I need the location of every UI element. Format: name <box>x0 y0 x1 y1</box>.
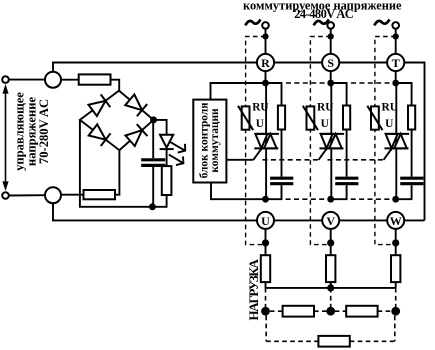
snubber resistor phase S <box>343 106 350 130</box>
dashed wire delta U to resistor <box>270 310 283 312</box>
wire phase T main vertical through triac <box>395 83 397 199</box>
bridge diode D4 (bottom-right) <box>125 124 148 147</box>
wire capacitor C1 to minus rail <box>152 167 154 207</box>
output circle U <box>257 212 274 229</box>
svg-text:S: S <box>327 56 334 70</box>
junction dot load V <box>327 239 334 246</box>
varistor RU phase T <box>367 106 382 130</box>
junction dot bridge plus <box>150 116 157 123</box>
dashed wire S-T at output bus <box>351 198 396 200</box>
dashed wire R-S at input bus <box>286 82 331 84</box>
wire load node to load resistor W <box>395 243 397 255</box>
control block U1 <box>193 100 226 183</box>
diode bridge frame <box>80 91 154 151</box>
wire S input node to snubber resistor <box>331 83 347 106</box>
wire load node to load resistor V <box>330 243 332 255</box>
svg-text:T: T <box>392 56 400 70</box>
svg-text:U: U <box>385 118 393 130</box>
label: commutation control block (rotated) <box>199 103 222 179</box>
junction dot R top <box>262 33 268 39</box>
wire circle R to input node <box>265 71 267 83</box>
wire terminal X2 to node circle B <box>9 194 45 196</box>
snubber capacitor phase R <box>270 178 293 184</box>
junction dot delta W <box>391 307 400 316</box>
LED arrow 2 <box>169 155 184 166</box>
delta resistor U-V <box>283 306 314 317</box>
junction dot R output node <box>262 196 269 203</box>
wire phase R main vertical through triac <box>265 83 267 199</box>
wire: bridge AC bottom to resistor R2 <box>115 150 119 195</box>
wire phase S main vertical through triac <box>330 83 332 199</box>
svg-text:W: W <box>390 214 402 228</box>
wire: top bus from node A up and right to phase circles, down right side <box>53 63 425 221</box>
wire load node to load resistor U <box>265 243 267 255</box>
wire star connection of load <box>266 287 396 289</box>
wire circle T to input node <box>395 71 397 83</box>
output circle V <box>322 212 339 229</box>
label: load (rotated) <box>246 258 261 320</box>
wire snubber capacitor to output node phase R <box>266 185 282 199</box>
wire junction to circle T <box>395 37 397 55</box>
wire load resistor W to star point <box>395 282 397 288</box>
wire load resistor U to star point <box>265 282 267 288</box>
resistor R1 (top control) <box>79 74 111 84</box>
svg-text:24-480V AC: 24-480V AC <box>294 7 354 21</box>
output circle W <box>387 212 404 229</box>
snubber resistor phase T <box>408 106 415 130</box>
dashed wire resistor to delta W <box>378 310 392 312</box>
dashed wire bottom left <box>266 340 318 342</box>
gate lead triac VS1 <box>253 148 261 159</box>
triac VS1 phase R <box>254 134 279 149</box>
dashed wire W to delta node <box>395 288 397 311</box>
capacitor C1 <box>141 160 165 166</box>
wire snubber capacitor to output node phase S <box>331 185 347 199</box>
snubber capacitor phase T <box>400 178 423 184</box>
wire terminal X1 to node circle A <box>9 79 45 81</box>
wire T input node to snubber resistor <box>396 83 412 106</box>
dashed wire R-S at output bus <box>286 198 331 200</box>
svg-text:70-280V AC: 70-280V AC <box>37 99 51 164</box>
wire block top to phase R input bus <box>211 83 266 100</box>
wire snubber resistor to capacitor phase R <box>281 130 283 177</box>
svg-text:RU: RU <box>317 101 333 113</box>
junction dot R input node <box>262 80 269 87</box>
dashed wire bottom right <box>350 340 395 342</box>
dashed module outline phase R <box>246 37 266 245</box>
terminal phase S input <box>327 22 334 29</box>
label: control voltage (rotated) <box>12 92 51 171</box>
wire circle S to input node <box>330 71 332 83</box>
wire snubber capacitor to output node phase T <box>396 185 412 199</box>
varistor RU phase S <box>303 106 318 130</box>
load resistor phase V <box>326 255 335 282</box>
junction dot minus rail <box>149 203 156 210</box>
delta resistor U-W <box>318 336 349 347</box>
junction dot delta V <box>326 307 335 316</box>
wire resistor R1 to bridge AC top <box>111 80 120 91</box>
svg-text:U: U <box>321 118 329 130</box>
node circle A <box>45 72 61 88</box>
svg-text:V: V <box>326 214 335 228</box>
~ AC mark phase R <box>245 19 260 25</box>
snubber resistor phase R <box>278 106 285 130</box>
bridge diode D2 (top-right) <box>125 94 148 117</box>
load resistor phase W <box>391 255 400 282</box>
dashed module outline phase S <box>310 37 330 245</box>
svg-text:коммутации: коммутации <box>209 108 221 173</box>
dashed wire delta V to resistor <box>335 310 347 312</box>
wire junction to circle S <box>330 37 332 55</box>
svg-text:RU: RU <box>252 101 268 113</box>
double-headed arrow between control terminals <box>2 84 8 191</box>
junction dot T input node <box>392 80 399 87</box>
junction dot S output node <box>327 196 334 203</box>
wire: bridge minus rail (left vertex down and right) <box>80 120 167 207</box>
bridge diode D1 (left-top) <box>88 94 110 116</box>
svg-text:R: R <box>261 56 270 70</box>
phase circle S <box>322 54 339 71</box>
junction dot load W <box>392 239 399 246</box>
phase circle R <box>257 54 274 71</box>
phase circle T <box>387 54 404 71</box>
varistor RU phase R <box>238 106 253 130</box>
LED arrow 1 <box>170 142 185 153</box>
delta resistor V-W <box>346 306 377 317</box>
~ AC mark phase S <box>314 19 329 25</box>
terminal phase R input <box>262 22 269 29</box>
dashed module outline phase T <box>375 37 396 245</box>
wire terminal S to junction <box>330 29 332 37</box>
junction dot S input node <box>327 80 334 87</box>
dashed gate wire to triac VS3 <box>328 159 384 161</box>
gate lead triac VS3 <box>384 148 392 159</box>
gate lead triac VS2 <box>319 148 327 159</box>
resistor R2 (bottom control) <box>84 190 116 199</box>
dashed wire delta W down <box>394 316 396 342</box>
wire snubber resistor to capacitor phase T <box>411 130 413 177</box>
dashed gate wire to triac VS2 <box>263 159 319 161</box>
junction dot T top <box>393 33 399 39</box>
svg-text:RU: RU <box>382 101 398 113</box>
svg-text:U: U <box>261 214 270 228</box>
wire resistor R3 to minus rail <box>166 195 168 208</box>
terminal X2 control input bottom <box>2 192 9 199</box>
wire node B to resistor R2 <box>61 194 84 196</box>
dashed wire delta U down <box>265 316 267 342</box>
wire block bottom to phase R output node <box>211 183 266 200</box>
junction dot delta U <box>261 307 270 316</box>
triac VS2 phase S <box>320 134 345 149</box>
wire load resistor V to star point <box>330 282 332 288</box>
svg-text:НАГРУЗКА: НАГРУЗКА <box>246 258 261 320</box>
node circle B <box>45 187 61 203</box>
wire output circle V to load node <box>330 229 332 243</box>
wire node A to resistor R1 <box>61 79 79 81</box>
svg-text:U: U <box>256 118 264 130</box>
load resistor phase U <box>261 255 270 282</box>
junction dot star point <box>327 284 334 291</box>
dashed wire U to delta node <box>265 288 267 311</box>
dashed wire resistor to delta V <box>314 310 327 312</box>
wire: bridge plus to capacitor C1 <box>152 120 154 158</box>
dashed wire V to delta node <box>330 288 332 311</box>
wire output circle W to load node <box>395 229 397 243</box>
triac VS3 phase T <box>385 134 410 149</box>
dashed wire S-T at input bus <box>351 82 396 84</box>
terminal phase T input <box>392 22 399 29</box>
LED VD5 (optocoupler emitter) <box>160 135 174 166</box>
terminal X1 control input top <box>2 76 9 83</box>
resistor R3 (LED series) <box>162 166 172 195</box>
junction dot load U <box>262 239 269 246</box>
wire: bridge plus to LED branch <box>154 120 167 135</box>
junction dot S top <box>328 33 334 39</box>
snubber capacitor phase S <box>335 178 358 184</box>
~ AC mark phase T <box>374 19 389 25</box>
bridge diode D3 (left-bottom) <box>88 124 110 146</box>
gate wire block to triac VS1 <box>226 159 253 161</box>
wire: bottom bus from node B down and right to output circles <box>53 203 425 220</box>
wire snubber resistor to capacitor phase S <box>346 130 348 177</box>
junction dot T output node <box>392 196 399 203</box>
wire R input node to snubber resistor <box>266 83 282 106</box>
wire terminal T to junction <box>395 29 397 37</box>
wire junction to circle R <box>265 37 267 55</box>
wire output circle U to load node <box>265 229 267 243</box>
wire terminal R to junction <box>265 29 267 37</box>
